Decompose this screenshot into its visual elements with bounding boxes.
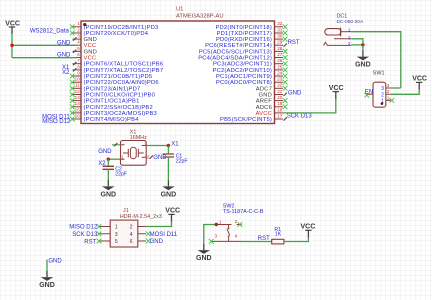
SW2 pin3 no-connect bbox=[209, 239, 214, 244]
U1 right pin 30 (PD0(RXD/PCINT16)) bbox=[216, 34, 288, 44]
wire DC1 pin3 down bbox=[351, 39, 363, 45]
junction on VCC rail bbox=[10, 44, 13, 47]
svg-text:(PCINT3/OC2A/MOSI)PB3: (PCINT3/OC2A/MOSI)PB3 bbox=[84, 111, 157, 117]
svg-text:MISO D12: MISO D12 bbox=[42, 119, 71, 125]
U1 left pin 13 ((PCINT1/OC1A)PB1) bbox=[70, 95, 140, 105]
svg-text:3: 3 bbox=[387, 83, 390, 88]
U1 right pin 23 (PC0(ADC0/PCINT8)) bbox=[216, 77, 288, 87]
svg-text:4: 4 bbox=[235, 234, 238, 239]
svg-text:3: 3 bbox=[381, 86, 384, 92]
svg-text:GND: GND bbox=[288, 90, 302, 96]
svg-text:19: 19 bbox=[277, 101, 283, 106]
svg-text:GND: GND bbox=[84, 37, 97, 43]
svg-text:6: 6 bbox=[77, 52, 80, 57]
svg-text:GND: GND bbox=[98, 149, 112, 155]
wire X2 node down to C2 bbox=[107, 159, 109, 166]
svg-text:1: 1 bbox=[121, 154, 124, 159]
svg-text:GND: GND bbox=[84, 49, 97, 55]
U1 right pin 31 (PD1(TXD/PCINT17)) bbox=[217, 27, 288, 37]
svg-text:29: 29 bbox=[277, 40, 283, 45]
U1 left pin 4 (VCC) bbox=[73, 40, 97, 50]
crystal pin2 gnd marker bbox=[150, 156, 153, 159]
svg-text:28: 28 bbox=[277, 46, 283, 51]
svg-text:GND: GND bbox=[39, 282, 55, 289]
crystal pin4 gnd stub bbox=[112, 143, 121, 146]
wire X1 node down to C1 bbox=[167, 146, 169, 155]
svg-text:32: 32 bbox=[277, 21, 283, 26]
svg-text:PC0(ADC0/PCINT8): PC0(ADC0/PCINT8) bbox=[216, 80, 272, 86]
svg-text:PC2(ADC2/PCINT10): PC2(ADC2/PCINT10) bbox=[213, 68, 272, 74]
svg-text:X2: X2 bbox=[62, 70, 70, 76]
U1 right pin 21 (GND) bbox=[259, 89, 287, 99]
U1 left pin 10 ((PCINT22/OC0A/AIN0)PD6) bbox=[70, 77, 159, 87]
switch SW1 body bbox=[373, 82, 386, 107]
svg-text:11: 11 bbox=[75, 83, 80, 88]
header J1 body bbox=[110, 220, 138, 247]
U1 right pin 17 (PB5(SCK/PCINT5)) bbox=[220, 114, 287, 124]
svg-text:30: 30 bbox=[277, 34, 283, 39]
svg-text:PD2(INT0/PCINT18): PD2(INT0/PCINT18) bbox=[215, 25, 272, 31]
node X1 junction bbox=[167, 144, 170, 147]
net label EN + no-connect bbox=[364, 90, 373, 98]
svg-text:PD0(RXD/PCINT16): PD0(RXD/PCINT16) bbox=[216, 37, 272, 43]
capacitor C1 bbox=[163, 153, 188, 164]
svg-text:VCC: VCC bbox=[301, 224, 316, 231]
U1 right pin 32 (PD2(INT0/PCINT18)) bbox=[215, 21, 287, 31]
svg-text:SCK D13: SCK D13 bbox=[287, 114, 313, 120]
U1 right pin 26 (PC3(ADC3/PCINT11)) bbox=[213, 58, 288, 68]
svg-text:5: 5 bbox=[77, 46, 80, 51]
button SW2 symbol bbox=[212, 219, 242, 242]
U1 right pin 25 (PC2(ADC2/PCINT10)) bbox=[213, 64, 288, 74]
U1 right pin 20 (AREF) bbox=[256, 95, 288, 105]
svg-text:(PCINT21/OC0B/T1)PD5: (PCINT21/OC0B/T1)PD5 bbox=[84, 74, 153, 80]
svg-text:VCC: VCC bbox=[165, 208, 180, 215]
svg-text:GND: GND bbox=[259, 93, 272, 99]
svg-text:22pF: 22pF bbox=[115, 172, 127, 178]
svg-text:PC6(RESET#/PCINT14): PC6(RESET#/PCINT14) bbox=[205, 43, 272, 49]
svg-text:SCK D13: SCK D13 bbox=[72, 232, 98, 238]
svg-text:23: 23 bbox=[277, 77, 283, 82]
svg-text:13: 13 bbox=[75, 95, 81, 100]
power flag VCC (left rail) bbox=[5, 20, 20, 34]
U1 left pin 9 ((PCINT21/OC0B/T1)PD5) bbox=[70, 70, 152, 80]
svg-text:GND: GND bbox=[101, 191, 117, 198]
svg-text:PB5(SCK/PCINT5): PB5(SCK/PCINT5) bbox=[220, 117, 272, 123]
U1 left pin 8 ((PCINT7/XTAL2/TOSC2)PB7) bbox=[73, 64, 164, 74]
svg-text:X1: X1 bbox=[171, 141, 179, 147]
svg-text:2: 2 bbox=[77, 27, 80, 32]
svg-text:TS-1187A-C-C-B: TS-1187A-C-C-B bbox=[223, 209, 264, 215]
U1 right pin 19 (ADC6) bbox=[256, 101, 288, 111]
U1 left pin 12 ((PCINT0/CLKO/ICP1)PB0) bbox=[70, 89, 155, 99]
svg-text:(PCINT22/OC0A/AIN0)PD6: (PCINT22/OC0A/AIN0)PD6 bbox=[84, 80, 159, 86]
J1 pin4 no-connect + label MOSI D11 bbox=[146, 231, 151, 236]
svg-text:1: 1 bbox=[348, 27, 351, 32]
wire to U1 pin 6 bbox=[12, 57, 76, 59]
svg-text:15: 15 bbox=[75, 107, 81, 112]
wire C1 to gnd bbox=[167, 157, 169, 181]
svg-text:18: 18 bbox=[277, 107, 283, 112]
svg-text:PD1(TXD/PCINT17): PD1(TXD/PCINT17) bbox=[217, 31, 272, 37]
svg-text:VCC: VCC bbox=[329, 85, 344, 92]
svg-text:HDR-M-2.54_2x3: HDR-M-2.54_2x3 bbox=[120, 214, 162, 220]
svg-text:GND: GND bbox=[153, 155, 167, 161]
junction SW2 pin1 bbox=[215, 223, 218, 226]
svg-text:(PCINT0/CLKO/ICP1)PB0: (PCINT0/CLKO/ICP1)PB0 bbox=[84, 93, 156, 99]
svg-text:22: 22 bbox=[277, 83, 283, 88]
svg-text:(PCINT7/XTAL2/TOSC2)PB7: (PCINT7/XTAL2/TOSC2)PB7 bbox=[84, 68, 164, 74]
crystal pin numbers bbox=[121, 141, 150, 160]
U1 right pin 22 (ADC7) bbox=[256, 83, 288, 93]
svg-text:8: 8 bbox=[77, 64, 80, 69]
svg-text:U1: U1 bbox=[176, 7, 183, 13]
svg-text:3: 3 bbox=[215, 234, 218, 239]
connector DC1 barrel jack symbol bbox=[323, 27, 351, 46]
svg-text:RST: RST bbox=[84, 239, 96, 245]
wire to U1 pin 4 bbox=[12, 44, 76, 46]
U1 left pin 3 (GND) bbox=[73, 34, 97, 44]
U1 right pin 24 (PC1(ADC1/PCINT9)) bbox=[216, 70, 288, 80]
svg-text:7: 7 bbox=[77, 58, 80, 63]
svg-text:VCC: VCC bbox=[84, 43, 97, 49]
svg-text:AREF: AREF bbox=[256, 99, 273, 105]
SW1 pin1 no-connect bbox=[389, 98, 394, 103]
svg-text:ATMEGA328P-AU: ATMEGA328P-AU bbox=[176, 14, 224, 20]
svg-text:DC-050-20A: DC-050-20A bbox=[337, 19, 364, 25]
wire J1 pin2 to VCC bbox=[146, 221, 172, 227]
svg-text:VCC: VCC bbox=[5, 20, 20, 27]
svg-text:VCC: VCC bbox=[412, 76, 427, 83]
svg-text:2: 2 bbox=[381, 92, 384, 98]
power flag VCC (J1) bbox=[165, 208, 180, 222]
J1 pin stubs bbox=[99, 227, 146, 242]
svg-text:16: 16 bbox=[75, 114, 81, 119]
svg-text:27: 27 bbox=[277, 52, 283, 57]
U1 left pin 7 ((PCINT6/XTAL1/TOSC1)PB6) bbox=[73, 58, 164, 68]
ground (floating) bbox=[39, 271, 55, 289]
svg-text:6: 6 bbox=[130, 239, 133, 245]
U1 left pin 2 ((PCINT20/XCK/T0)PD4) bbox=[70, 27, 149, 37]
wire SW2 pin4 to R1 bbox=[242, 241, 272, 243]
svg-text:17: 17 bbox=[277, 114, 283, 119]
wire crystal pin1 to X2 node bbox=[108, 158, 120, 160]
svg-text:10: 10 bbox=[75, 77, 81, 82]
svg-text:PC4(ADC4/SDA/PCINT12): PC4(ADC4/SDA/PCINT12) bbox=[198, 56, 272, 62]
junction DC1 gnd bbox=[361, 43, 364, 46]
U1 left pin 15 ((PCINT3/OC2A/MOSI)PB3) bbox=[70, 107, 157, 117]
wire SW1 pin2 to VCC bbox=[391, 89, 419, 94]
svg-text:31: 31 bbox=[277, 27, 283, 32]
svg-text:25: 25 bbox=[277, 64, 283, 69]
wire crystal pin3 to X1 node bbox=[146, 145, 168, 147]
U1 right pin 18 (AVCC) bbox=[256, 107, 283, 117]
svg-text:2: 2 bbox=[130, 225, 133, 231]
svg-text:(PCINT23/AIN1)PD7: (PCINT23/AIN1)PD7 bbox=[84, 86, 141, 92]
node X2 junction bbox=[107, 158, 110, 161]
U1 left pin 5 (GND) bbox=[73, 46, 97, 56]
wire R1 to VCC bbox=[284, 237, 309, 242]
svg-text:3: 3 bbox=[77, 34, 80, 39]
svg-text:(PCINT2/SS#/OC1B)PB2: (PCINT2/SS#/OC1B)PB2 bbox=[84, 105, 153, 111]
svg-text:14: 14 bbox=[75, 101, 81, 106]
wire SW2 pin1 to gnd bbox=[204, 225, 217, 245]
svg-text:3: 3 bbox=[348, 35, 351, 40]
svg-text:VCC: VCC bbox=[84, 56, 97, 62]
svg-text:AVCC: AVCC bbox=[256, 111, 272, 117]
U1 right pin 28 (PC5(ADC5/SCL/PCINT13)) bbox=[199, 46, 288, 56]
wire DC1 pin2 to junction bbox=[351, 44, 363, 46]
J1 pin6 no-connect + label GND bbox=[146, 239, 151, 244]
svg-text:5: 5 bbox=[115, 239, 118, 245]
J1 left no-connects bbox=[97, 224, 102, 243]
svg-text:(PCINT6/XTAL1/TOSC1)PB6: (PCINT6/XTAL1/TOSC1)PB6 bbox=[84, 62, 164, 68]
SW1 pin stubs bbox=[367, 83, 391, 101]
svg-text:26: 26 bbox=[277, 58, 283, 63]
ground (C2) bbox=[101, 180, 117, 198]
svg-text:12: 12 bbox=[75, 89, 81, 94]
U1 right pin 29 (PC6(RESET#/PCINT14)) bbox=[205, 40, 287, 50]
power flag VCC (SW1) bbox=[412, 76, 427, 90]
svg-text:1K: 1K bbox=[275, 231, 282, 237]
svg-text:4: 4 bbox=[77, 40, 80, 45]
svg-text:PC3(ADC3/PCINT11): PC3(ADC3/PCINT11) bbox=[213, 62, 272, 68]
wire VCC rail vertical bbox=[11, 34, 13, 58]
power flag VCC (AVCC) bbox=[329, 85, 344, 99]
svg-text:GND: GND bbox=[161, 191, 177, 198]
U1 left pin 1 ((PCINT19/OC2B/INT1)PD3) bbox=[70, 21, 159, 31]
svg-text:GND: GND bbox=[355, 62, 371, 69]
resistor R1 bbox=[272, 227, 284, 244]
svg-text:RST: RST bbox=[258, 236, 270, 242]
svg-text:2: 2 bbox=[235, 219, 238, 224]
svg-text:(PCINT4/MISO)PB4: (PCINT4/MISO)PB4 bbox=[84, 117, 140, 123]
crystal X1 body bbox=[121, 141, 147, 166]
wire floating gnd stub bbox=[46, 260, 48, 272]
SW2 pin2 no-connect bbox=[238, 222, 243, 227]
svg-text:RST: RST bbox=[288, 40, 300, 46]
svg-text:MISO D12: MISO D12 bbox=[69, 225, 98, 231]
U1 right pin 27 (PC4(ADC4/SDA/PCINT12)) bbox=[198, 52, 287, 62]
svg-text:24: 24 bbox=[277, 70, 283, 75]
svg-text:GND: GND bbox=[150, 239, 164, 245]
wire SW1 pin3 bbox=[391, 87, 401, 89]
svg-text:GND: GND bbox=[48, 258, 62, 264]
svg-text:1: 1 bbox=[77, 21, 80, 26]
svg-text:(PCINT19/OC2B/INT1)PD3: (PCINT19/OC2B/INT1)PD3 bbox=[84, 25, 159, 31]
svg-text:9: 9 bbox=[77, 70, 80, 75]
svg-text:ADC7: ADC7 bbox=[256, 86, 272, 92]
wire C2 to gnd bbox=[107, 169, 109, 181]
svg-text:22pF: 22pF bbox=[176, 159, 188, 165]
svg-text:GND: GND bbox=[196, 255, 212, 262]
svg-text:(PCINT20/XCK/T0)PD4: (PCINT20/XCK/T0)PD4 bbox=[84, 31, 149, 37]
U1 left pin 6 (VCC) bbox=[73, 52, 97, 62]
ground (SW2) bbox=[196, 244, 212, 262]
svg-text:SW1: SW1 bbox=[373, 71, 385, 77]
svg-text:2: 2 bbox=[387, 89, 390, 94]
svg-text:2: 2 bbox=[147, 155, 150, 160]
svg-text:20: 20 bbox=[277, 95, 283, 100]
svg-text:3: 3 bbox=[115, 232, 118, 238]
wire U1 pin18 AVCC to VCC flag bbox=[283, 98, 336, 113]
svg-text:1: 1 bbox=[387, 95, 390, 100]
U1 left pin 14 ((PCINT2/SS#/OC1B)PB2) bbox=[70, 101, 153, 111]
svg-text:1: 1 bbox=[115, 225, 118, 231]
wire DC1 pin1 to SW1 pin3 bbox=[351, 32, 401, 88]
power flag VCC (R1) bbox=[301, 224, 316, 238]
svg-text:DC1: DC1 bbox=[337, 14, 348, 20]
svg-text:2: 2 bbox=[348, 41, 351, 46]
ground (DC1) bbox=[355, 51, 371, 69]
wire junction to gnd bbox=[362, 45, 364, 51]
svg-text:PC1(ADC1/PCINT9): PC1(ADC1/PCINT9) bbox=[216, 74, 272, 80]
svg-text:ADC6: ADC6 bbox=[256, 105, 272, 111]
svg-text:WS2812_Data: WS2812_Data bbox=[30, 28, 70, 34]
svg-text:4: 4 bbox=[130, 232, 133, 238]
svg-text:21: 21 bbox=[277, 89, 283, 94]
U1 left pin 16 ((PCINT4/MISO)PB4) bbox=[70, 114, 139, 124]
svg-text:1: 1 bbox=[219, 220, 222, 225]
svg-text:PC5(ADC5/SCL/PCINT13): PC5(ADC5/SCL/PCINT13) bbox=[199, 49, 272, 55]
U1 left pin 11 ((PCINT23/AIN1)PD7) bbox=[70, 83, 141, 93]
ground (C1) bbox=[161, 180, 177, 198]
svg-text:(PCINT1/OC1A)PB1: (PCINT1/OC1A)PB1 bbox=[84, 99, 140, 105]
svg-text:MOSI D11: MOSI D11 bbox=[150, 232, 178, 238]
capacitor C2 bbox=[103, 166, 128, 177]
microcontroller U1 body bbox=[81, 21, 275, 124]
